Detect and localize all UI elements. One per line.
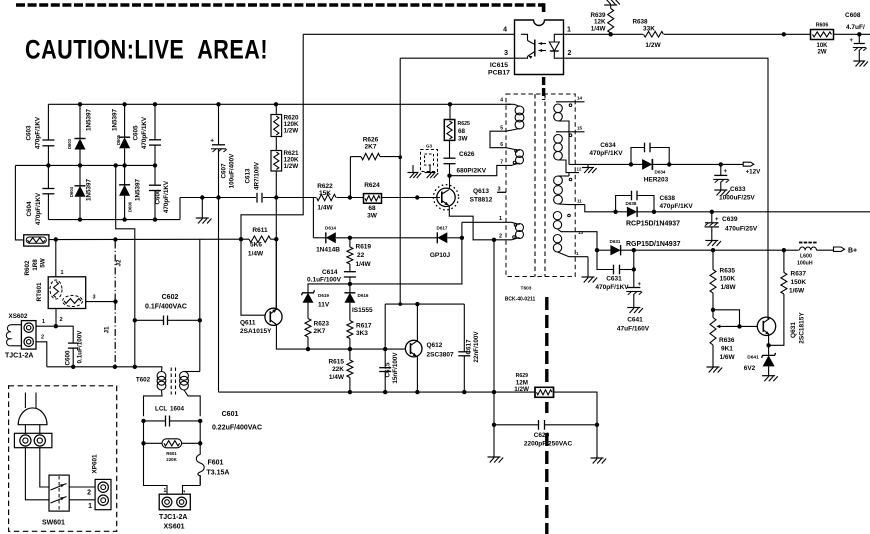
svg-text:D634: D634 <box>655 170 666 175</box>
svg-text:R601: R601 <box>166 451 177 456</box>
svg-text:4.7uF/: 4.7uF/ <box>846 24 865 31</box>
svg-text:5W: 5W <box>40 258 47 268</box>
svg-text:C613: C613 <box>245 168 252 184</box>
svg-text:BCK-40-0211: BCK-40-0211 <box>505 297 536 303</box>
svg-text:C617: C617 <box>466 339 473 355</box>
svg-text:R615: R615 <box>328 359 344 366</box>
svg-text:D606: D606 <box>128 201 133 212</box>
svg-text:10K: 10K <box>816 43 828 49</box>
svg-text:1604: 1604 <box>170 406 185 413</box>
svg-text:+: + <box>210 138 214 145</box>
svg-text:470pF/1KV: 470pF/1KV <box>595 284 629 291</box>
svg-text:2SC3807: 2SC3807 <box>427 352 454 359</box>
svg-text:1/2W: 1/2W <box>284 128 299 135</box>
svg-text:C633: C633 <box>730 186 746 193</box>
svg-text:1/6W: 1/6W <box>789 288 805 295</box>
svg-text:R622: R622 <box>317 183 333 190</box>
svg-text:D616: D616 <box>358 293 369 298</box>
svg-text:R623: R623 <box>314 321 330 328</box>
svg-text:+: + <box>849 38 853 44</box>
svg-text:4: 4 <box>503 27 507 34</box>
svg-text:C602: C602 <box>162 294 179 301</box>
svg-text:R626: R626 <box>363 137 379 144</box>
svg-text:4: 4 <box>500 98 503 104</box>
svg-text:150K: 150K <box>720 276 736 283</box>
svg-text:1: 1 <box>499 216 502 222</box>
svg-text:470pF/1KV: 470pF/1KV <box>163 180 170 213</box>
svg-text:1/2W: 1/2W <box>514 386 529 393</box>
svg-text:C600: C600 <box>65 350 72 366</box>
svg-text:IC615: IC615 <box>490 62 508 69</box>
svg-text:100uH: 100uH <box>797 261 813 267</box>
svg-text:3W: 3W <box>458 136 468 143</box>
svg-text:+: + <box>715 217 719 223</box>
svg-text:15nF/100V: 15nF/100V <box>392 352 399 384</box>
svg-text:R635: R635 <box>720 268 736 275</box>
svg-text:D641: D641 <box>747 355 759 361</box>
svg-text:G3: G3 <box>426 144 433 149</box>
svg-text:470pF/1KV: 470pF/1KV <box>589 150 623 157</box>
svg-text:D604: D604 <box>69 186 74 197</box>
svg-text:Q612: Q612 <box>427 342 443 349</box>
svg-text:1: 1 <box>42 319 45 325</box>
svg-text:1000uF/25V: 1000uF/25V <box>719 195 755 202</box>
svg-text:68: 68 <box>458 128 466 135</box>
svg-text:2K7: 2K7 <box>365 144 377 151</box>
svg-text:GP10J: GP10J <box>430 252 451 259</box>
svg-text:1: 1 <box>567 27 571 34</box>
svg-text:33K: 33K <box>643 26 655 33</box>
svg-text:15: 15 <box>577 126 583 131</box>
svg-text:T3.15A: T3.15A <box>207 470 230 477</box>
svg-text:D617: D617 <box>437 226 448 231</box>
svg-text:220K: 220K <box>166 457 177 462</box>
svg-text:470pF/1KV: 470pF/1KV <box>35 116 42 149</box>
svg-text:C604: C604 <box>26 201 33 217</box>
svg-text:1: 1 <box>576 251 579 256</box>
svg-text:0.1uF/100V: 0.1uF/100V <box>77 330 84 364</box>
svg-text:D603: D603 <box>67 138 72 149</box>
svg-text:RGP15D/1N4937: RGP15D/1N4937 <box>626 241 681 248</box>
svg-text:C603: C603 <box>26 125 33 141</box>
svg-text:TJC1-2A: TJC1-2A <box>5 353 33 360</box>
svg-text:TJC1-2A: TJC1-2A <box>159 514 187 521</box>
svg-text:Q631: Q631 <box>790 322 797 338</box>
svg-text:470pF/1KV: 470pF/1KV <box>141 116 148 149</box>
svg-text:R611: R611 <box>252 227 268 234</box>
svg-text:D631: D631 <box>610 239 621 244</box>
svg-text:C601: C601 <box>222 411 239 418</box>
svg-text:9K1: 9K1 <box>721 346 733 353</box>
svg-text:CAUTION:LIVE AREA!: CAUTION:LIVE AREA! <box>25 35 268 65</box>
svg-text:D614: D614 <box>325 226 336 231</box>
svg-text:470uF/25V: 470uF/25V <box>725 226 758 233</box>
svg-text:2: 2 <box>87 490 91 497</box>
svg-text:XP601: XP601 <box>92 454 99 473</box>
svg-text:3: 3 <box>497 187 500 193</box>
svg-text:1/2W: 1/2W <box>645 42 661 49</box>
svg-text:+: + <box>724 169 728 175</box>
svg-text:R617: R617 <box>356 323 372 330</box>
svg-text:D638: D638 <box>626 201 637 206</box>
svg-text:680P/2KV: 680P/2KV <box>457 168 487 175</box>
svg-text:LCL: LCL <box>155 406 167 413</box>
svg-text:C607: C607 <box>221 163 228 179</box>
svg-text:14: 14 <box>577 96 583 101</box>
svg-text:47uF/160V: 47uF/160V <box>617 326 650 333</box>
svg-text:R606: R606 <box>816 23 829 29</box>
svg-text:XS601: XS601 <box>164 524 185 531</box>
svg-text:C641: C641 <box>627 317 643 324</box>
svg-text:2: 2 <box>499 234 502 240</box>
svg-text:RT601: RT601 <box>36 282 43 301</box>
svg-text:2: 2 <box>41 335 44 341</box>
svg-text:1N5397: 1N5397 <box>135 178 142 201</box>
svg-text:R636: R636 <box>719 337 735 344</box>
svg-text:2SC1815Y: 2SC1815Y <box>799 312 806 344</box>
svg-text:1: 1 <box>88 503 92 510</box>
svg-text:ST8812: ST8812 <box>470 197 493 204</box>
svg-text:3W: 3W <box>367 213 378 220</box>
svg-text:C626: C626 <box>459 151 475 158</box>
svg-text:22K: 22K <box>332 366 344 373</box>
svg-text:C615: C615 <box>385 362 392 378</box>
svg-text:C608: C608 <box>845 12 861 19</box>
svg-text:3: 3 <box>93 295 96 301</box>
svg-text:470pF/1KV: 470pF/1KV <box>660 203 694 210</box>
svg-text:6: 6 <box>500 142 503 148</box>
svg-text:11V: 11V <box>318 302 330 309</box>
svg-text:22nF/100V: 22nF/100V <box>473 331 480 363</box>
svg-text:C629: C629 <box>534 432 550 439</box>
svg-text:2W: 2W <box>818 50 827 56</box>
svg-text:68: 68 <box>368 205 376 212</box>
svg-text:D605: D605 <box>116 134 121 145</box>
svg-text:1N5397: 1N5397 <box>112 108 119 131</box>
svg-text:1/6W: 1/6W <box>720 354 736 361</box>
svg-text:0.1F/400VAC: 0.1F/400VAC <box>145 304 187 311</box>
svg-text:B+: B+ <box>848 248 857 255</box>
svg-text:100uF/400V: 100uF/400V <box>229 153 236 188</box>
svg-text:3: 3 <box>504 50 508 57</box>
svg-text:C639: C639 <box>722 216 738 223</box>
svg-text:R629: R629 <box>516 373 529 379</box>
svg-text:6V2: 6V2 <box>744 365 756 372</box>
svg-text:15K: 15K <box>319 190 331 197</box>
svg-text:J2: J2 <box>116 259 123 267</box>
svg-text:2: 2 <box>181 490 186 493</box>
svg-text:2K7: 2K7 <box>314 328 326 335</box>
svg-text:R637: R637 <box>791 271 807 278</box>
svg-text:22: 22 <box>357 252 365 259</box>
svg-text:C631: C631 <box>606 276 622 283</box>
svg-text:5K6: 5K6 <box>250 242 262 249</box>
svg-text:4R7/100V: 4R7/100V <box>254 161 261 190</box>
svg-text:1: 1 <box>61 270 64 276</box>
svg-text:1/4W: 1/4W <box>317 205 333 212</box>
svg-text:1/4W: 1/4W <box>329 374 345 381</box>
svg-text:2: 2 <box>60 317 63 323</box>
svg-text:Q613: Q613 <box>473 188 489 195</box>
svg-text:C606: C606 <box>155 189 162 205</box>
svg-text:3K3: 3K3 <box>356 330 368 337</box>
svg-text:+12V: +12V <box>746 169 762 176</box>
svg-text:C634: C634 <box>600 142 616 149</box>
svg-text:11: 11 <box>577 199 582 204</box>
svg-text:2: 2 <box>568 50 572 57</box>
svg-text:T603: T603 <box>521 286 532 292</box>
svg-text:150K: 150K <box>791 279 807 286</box>
svg-text:13: 13 <box>578 230 584 235</box>
svg-text:PCB17: PCB17 <box>488 70 510 77</box>
svg-text:470pF/1KV: 470pF/1KV <box>35 192 42 225</box>
svg-text:0.1uF/100V: 0.1uF/100V <box>307 277 342 284</box>
svg-text:12K: 12K <box>594 19 606 26</box>
svg-text:1N5397: 1N5397 <box>86 108 93 131</box>
svg-text:R638: R638 <box>632 19 648 26</box>
svg-text:1N414B: 1N414B <box>316 247 340 254</box>
svg-text:C605: C605 <box>133 125 140 141</box>
svg-text:1R8: 1R8 <box>32 259 39 271</box>
svg-text:C614: C614 <box>322 269 338 276</box>
svg-text:IS1555: IS1555 <box>352 307 373 314</box>
svg-text:1/4W: 1/4W <box>591 26 606 33</box>
svg-text:R602: R602 <box>24 260 31 276</box>
svg-text:1/2W: 1/2W <box>284 163 299 170</box>
svg-text:R624: R624 <box>364 182 380 189</box>
svg-text:Q611: Q611 <box>240 320 256 327</box>
svg-text:RCP15D/1N4937: RCP15D/1N4937 <box>626 221 680 228</box>
svg-text:5: 5 <box>500 126 503 132</box>
svg-text:R625: R625 <box>458 121 471 127</box>
svg-text:F601: F601 <box>208 460 224 467</box>
svg-text:XS602: XS602 <box>9 313 28 320</box>
svg-text:R619: R619 <box>356 244 372 251</box>
svg-text:J1: J1 <box>104 326 111 334</box>
svg-text:L600: L600 <box>800 254 812 260</box>
svg-text:D619: D619 <box>318 293 329 298</box>
svg-text:12: 12 <box>577 167 583 172</box>
svg-text:1/4W: 1/4W <box>356 261 372 268</box>
svg-text:0.22uF/400VAC: 0.22uF/400VAC <box>212 425 262 432</box>
svg-text:7: 7 <box>500 160 503 166</box>
svg-text:HER203: HER203 <box>644 177 669 184</box>
svg-text:1: 1 <box>164 488 167 494</box>
svg-text:C638: C638 <box>660 195 676 202</box>
svg-text:1/4W: 1/4W <box>248 251 264 258</box>
svg-text:2SA1015Y: 2SA1015Y <box>240 328 272 335</box>
svg-text:2200pF/250VAC: 2200pF/250VAC <box>524 441 573 448</box>
svg-text:1N5397: 1N5397 <box>86 178 93 201</box>
svg-text:SW601: SW601 <box>42 520 65 527</box>
svg-text:T602: T602 <box>136 377 151 384</box>
svg-text:+: + <box>638 282 642 288</box>
svg-text:1/8W: 1/8W <box>721 284 737 291</box>
